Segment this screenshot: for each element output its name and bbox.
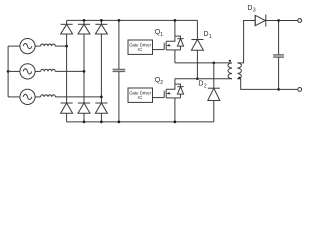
AC source V1 — [20, 39, 35, 54]
wire source2 to L2 — [35, 70, 41, 72]
transformer T1 secondary — [237, 63, 241, 79]
svg-text:1: 1 — [209, 34, 212, 40]
svg-text:D: D — [198, 81, 203, 88]
diode D2 — [208, 63, 220, 122]
bridge diode bottom col3 — [95, 97, 107, 122]
body diode Q1 — [175, 36, 184, 50]
bridge diode top col2 — [78, 20, 90, 71]
wire phase2 stub — [8, 70, 20, 72]
node bottom rail col3 — [100, 121, 103, 124]
wire left bus — [7, 46, 9, 97]
node output- cap junction — [277, 88, 280, 91]
capacitor C1 bottom lead — [118, 72, 120, 122]
node top rail cap — [118, 19, 121, 22]
node phase3-bridge junction — [100, 96, 103, 99]
node bus-phase2 junction — [7, 70, 10, 73]
wire A (Q1 source to primary top) — [175, 62, 232, 64]
wire phase3 stub — [8, 96, 20, 98]
inductor L3 — [41, 95, 56, 97]
node phase1-bridge junction — [65, 45, 68, 48]
gate driver U2 box — [128, 88, 153, 102]
wire D3 cathode to output+ — [266, 20, 298, 22]
transistor Q1 — [164, 36, 180, 50]
node D2 cathode on wire A — [212, 62, 215, 65]
wire Q1 drain riser — [174, 20, 176, 36]
inductor L1 — [41, 44, 56, 46]
svg-text:2: 2 — [204, 83, 207, 89]
node phase2-bridge junction — [83, 70, 86, 73]
bridge diode top col3 — [95, 20, 107, 97]
bridge diode bottom col1 — [61, 46, 73, 122]
capacitor C1 plates — [113, 69, 126, 71]
capacitor C2 (output) top lead — [278, 21, 280, 55]
capacitor C2 bottom lead — [278, 57, 280, 89]
wire L2 to bridge — [55, 70, 84, 72]
node bottom rail cap — [118, 121, 121, 124]
diode D1 — [191, 20, 203, 78]
wire B (Q2 drain to primary bottom) — [175, 78, 232, 80]
transistor Q2 — [164, 84, 180, 98]
svg-text:IC: IC — [138, 47, 142, 52]
inductor L2 — [41, 69, 56, 71]
wire phase1 stub — [8, 45, 20, 47]
svg-text:3: 3 — [253, 8, 256, 14]
node bottom rail Q2 source — [174, 121, 177, 124]
node primary polarity dot — [229, 60, 231, 62]
node top rail col2 — [83, 19, 86, 22]
gate driver U1 box — [128, 40, 153, 54]
svg-text:D: D — [247, 5, 252, 12]
wire bottom rail — [67, 121, 214, 123]
capacitor C2 plates — [273, 55, 284, 58]
wire Q2 drain riser — [174, 79, 176, 84]
svg-text:1: 1 — [160, 32, 163, 38]
transformer T1 primary — [228, 63, 232, 79]
terminal output+ — [298, 19, 302, 23]
node output+ cap junction — [277, 19, 280, 22]
node bottom rail col2 — [83, 121, 86, 124]
wire secondary top to D3 — [237, 21, 255, 63]
wire source3 to L3 — [35, 96, 41, 98]
wire top rail — [67, 19, 198, 21]
bridge diode bottom col2 — [78, 71, 90, 122]
wire source1 to L1 — [35, 45, 41, 47]
AC source V3 — [20, 89, 35, 104]
node D1 anode on wire B — [196, 77, 199, 80]
wire secondary bottom to output- — [237, 79, 297, 90]
wire L1 to bridge — [55, 45, 66, 47]
wire Q2 source riser — [174, 98, 176, 122]
wire L3 to bridge — [55, 96, 101, 98]
svg-text:2: 2 — [160, 80, 163, 86]
node secondary polarity dot — [238, 77, 240, 79]
body diode Q2 — [175, 84, 184, 98]
wire gate1 — [153, 49, 165, 51]
wire gate2 — [153, 97, 165, 99]
wire Q1 source riser — [174, 50, 176, 63]
terminal output- — [298, 88, 302, 92]
bridge diode top col1 — [61, 20, 73, 46]
AC source V2 — [20, 64, 35, 79]
node top rail Q1 drain — [174, 19, 177, 22]
diode D3 — [255, 15, 266, 27]
capacitor C1 (DC link) top lead — [118, 20, 120, 69]
svg-text:IC: IC — [138, 95, 142, 100]
node top rail col3 — [100, 19, 103, 22]
svg-text:D: D — [204, 31, 209, 38]
